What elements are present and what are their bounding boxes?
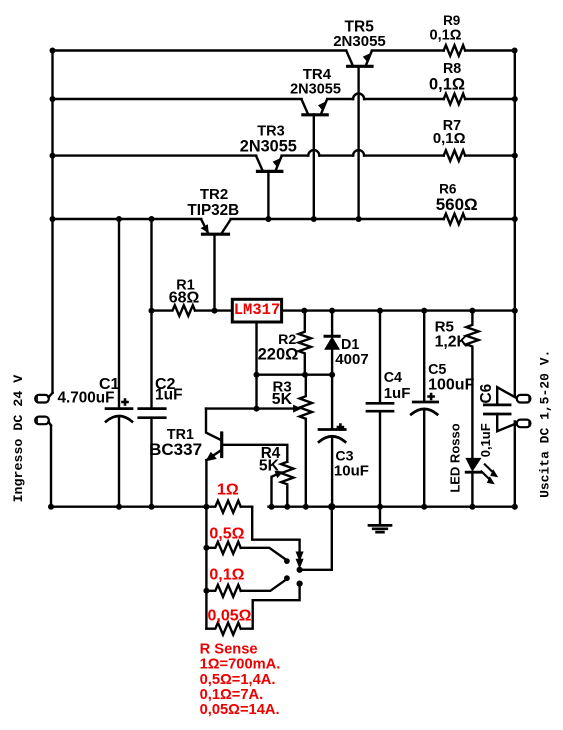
junction C5 top / output line bbox=[421, 308, 427, 314]
svg-text:4007: 4007 bbox=[335, 351, 368, 368]
transistor TR2 bbox=[201, 220, 230, 234]
wire right output bus upper bbox=[514, 51, 516, 397]
resistor R7 bbox=[444, 150, 465, 161]
resistor R6 bbox=[444, 214, 465, 225]
svg-text:0,5Ω: 0,5Ω bbox=[209, 526, 244, 543]
junction D1 top / output line bbox=[329, 308, 335, 314]
switch SW1 common pole dot bbox=[297, 567, 303, 573]
wire bottom rail left with resistor 1 ohm bbox=[51, 501, 252, 513]
R4 wiper bbox=[272, 473, 280, 507]
svg-text:1Ω=700mA.: 1Ω=700mA. bbox=[200, 657, 281, 673]
svg-text:1uF: 1uF bbox=[155, 387, 183, 404]
wire TR5 base down bbox=[357, 68, 359, 220]
capacitor C2 plates bbox=[139, 409, 165, 418]
wire hop over TR5 base bbox=[353, 150, 364, 156]
svg-text:Ingresso DC 24 V: Ingresso DC 24 V bbox=[11, 375, 26, 503]
resistor R1 bbox=[152, 305, 233, 316]
wire input minus down bbox=[50, 426, 52, 507]
LED emission arrows bbox=[481, 464, 494, 480]
wire TR4 base down bbox=[313, 115, 315, 220]
wire TR2 base down bbox=[213, 236, 215, 311]
wire hop over TR5 base bbox=[353, 94, 364, 100]
transistor TR3 bbox=[256, 156, 281, 171]
junction right bus / output line bbox=[512, 308, 518, 314]
connector input plus plug bbox=[35, 395, 49, 403]
junction TR4 base / TR2 collector rail bbox=[311, 216, 317, 222]
capacitor C5 plates bbox=[413, 401, 438, 404]
svg-text:BC337: BC337 bbox=[149, 440, 202, 459]
svg-text:1,2K: 1,2K bbox=[435, 334, 469, 351]
junction TR1 emitter / sense bus bbox=[203, 504, 209, 510]
resistor R5 bbox=[466, 311, 478, 459]
wire 1 ohm to selector bbox=[252, 507, 299, 553]
junction R4 wiper / ground rail bbox=[269, 504, 275, 510]
junction right bus / R7 bbox=[512, 153, 518, 159]
svg-text:LED Rosso: LED Rosso bbox=[447, 423, 462, 492]
junction sense bus / 0,1 ohm row bbox=[203, 588, 209, 594]
svg-text:2N3055: 2N3055 bbox=[333, 33, 386, 50]
C5 plus sign bbox=[427, 393, 435, 401]
junction C4 top / output line bbox=[377, 308, 383, 314]
junction R3 bottom / ground rail bbox=[303, 504, 309, 510]
svg-text:R9: R9 bbox=[443, 13, 460, 28]
junction left bus / TR3 rail bbox=[50, 153, 56, 159]
svg-text:5K: 5K bbox=[272, 391, 293, 408]
svg-text:0,1uF: 0,1uF bbox=[478, 423, 493, 457]
svg-text:0,1Ω=7A.: 0,1Ω=7A. bbox=[200, 687, 264, 703]
wire hop over TR4 base bbox=[308, 150, 319, 156]
wire LM317 adj pin bbox=[255, 322, 257, 375]
transistor TR2 emitter arrow bbox=[201, 224, 209, 233]
wire bottom rail right (ground net) bbox=[269, 506, 515, 508]
ground bbox=[379, 507, 381, 525]
wire sense network left bus bbox=[205, 507, 207, 629]
capacitor C5 leads bbox=[423, 311, 425, 507]
wire rail TR4 row with hop bbox=[53, 98, 515, 100]
capacitor C6 leads bbox=[497, 387, 517, 431]
transistor TR4 bbox=[302, 100, 327, 115]
wire left +24V bus bbox=[51, 51, 53, 393]
wire right output bus lower bbox=[514, 422, 516, 507]
svg-text:10uF: 10uF bbox=[334, 462, 369, 479]
junction R1 left / C2 branch bbox=[149, 308, 155, 314]
svg-text:5K: 5K bbox=[259, 457, 280, 474]
capacitor C1 plates bbox=[106, 407, 132, 410]
junction R2 bottom / adj line bbox=[302, 372, 308, 378]
junction TR3 base / TR2 collector rail bbox=[265, 216, 271, 222]
switch SW1 contact 0,1 ohm lever tip bbox=[284, 575, 290, 581]
svg-text:2N3055: 2N3055 bbox=[290, 82, 341, 98]
transistor TR5 bbox=[346, 51, 371, 66]
junction R5 top / output line bbox=[469, 308, 475, 314]
svg-text:0,05Ω: 0,05Ω bbox=[208, 608, 252, 625]
svg-text:C4: C4 bbox=[384, 370, 402, 386]
resistor R2 bbox=[299, 311, 311, 375]
svg-text:R Sense: R Sense bbox=[200, 642, 258, 658]
wire top rail TR5 row bbox=[53, 49, 515, 51]
svg-text:0,1Ω: 0,1Ω bbox=[429, 75, 465, 93]
svg-text:TR2: TR2 bbox=[200, 186, 228, 203]
junction C2 top bbox=[149, 216, 155, 222]
resistor R9 bbox=[444, 45, 465, 56]
junction C1 top bbox=[116, 216, 122, 222]
junction left bus / TR4 rail bbox=[50, 96, 56, 102]
junction C2 bottom bbox=[149, 504, 155, 510]
svg-text:C6: C6 bbox=[478, 383, 495, 403]
resistor Rs2 0.5 ohm row bbox=[206, 542, 287, 561]
svg-text:Uscita DC 1,5-20 V.: Uscita DC 1,5-20 V. bbox=[538, 350, 553, 498]
transistor TR3 emitter arrow bbox=[273, 158, 281, 168]
C3 plus sign bbox=[337, 423, 345, 431]
switch SW1 contact 0,05 ohm bbox=[297, 581, 303, 587]
transistor TR4 emitter arrow bbox=[318, 101, 326, 111]
wire R3 wiper line from TR1 collector bbox=[206, 407, 296, 409]
junction D1 anode / C3 / adj line bbox=[329, 372, 335, 378]
svg-text:1uF: 1uF bbox=[384, 385, 411, 402]
wire LM317 output line bbox=[282, 309, 515, 311]
junction C5 bottom / ground rail bbox=[421, 504, 427, 510]
capacitor C4 leads bbox=[379, 311, 381, 507]
svg-text:4.700uF: 4.700uF bbox=[58, 390, 115, 407]
junction input minus / bottom rail bbox=[48, 504, 54, 510]
junction LED cathode / ground rail bbox=[469, 504, 475, 510]
connector output plus plug bbox=[517, 395, 531, 403]
junction C3 bottom / selector common / ground rail bbox=[328, 503, 335, 510]
junction left bus / TR2 rail bbox=[50, 216, 56, 222]
junction right bus / R9 bbox=[512, 48, 518, 54]
svg-text:TIP32B: TIP32B bbox=[187, 202, 239, 219]
junction R2 top / output line bbox=[301, 308, 307, 314]
svg-text:0,1Ω: 0,1Ω bbox=[430, 27, 462, 43]
junction R4 bottom / ground rail bbox=[284, 504, 290, 510]
capacitor C6 plates bbox=[484, 405, 510, 414]
resistor Rs4 0.05 ohm row bbox=[206, 585, 299, 635]
connector input minus plug bbox=[35, 417, 49, 425]
wire TR3 base down bbox=[267, 172, 269, 219]
svg-text:68Ω: 68Ω bbox=[169, 289, 200, 306]
junction right bus / R6 bbox=[512, 216, 518, 222]
junction C4 bottom / ground symbol bbox=[377, 504, 383, 510]
switch SW1 contact 0,5 ohm lever tip bbox=[284, 558, 290, 564]
wire TR1 emitter down bbox=[205, 460, 207, 507]
LED D2 LED Rosso bbox=[466, 458, 480, 470]
junction TR2 base / LM317 input bbox=[212, 308, 218, 314]
svg-text:1Ω: 1Ω bbox=[217, 482, 239, 499]
resistor R4 (trimmer) bbox=[281, 462, 293, 507]
resistor Rs3 0.1 ohm row bbox=[206, 579, 287, 597]
junction right bus / ground rail bbox=[512, 504, 518, 510]
svg-text:0,5Ω=1,4A.: 0,5Ω=1,4A. bbox=[200, 672, 276, 688]
resistor R3 (trimmer) bbox=[300, 375, 312, 507]
svg-text:100uF: 100uF bbox=[428, 376, 474, 393]
wire selector common to ground rail bbox=[300, 507, 332, 570]
capacitor C3 leads bbox=[331, 375, 333, 507]
capacitor C4 plates bbox=[367, 403, 393, 411]
capacitor C3 plates bbox=[319, 428, 345, 431]
junction left bus / top rail bbox=[50, 48, 56, 54]
wire rail TR3 row with hops bbox=[53, 154, 515, 156]
junction C1 bottom bbox=[116, 504, 122, 510]
wire adj to wiper link bbox=[255, 375, 257, 409]
wire rail TR2 row bbox=[53, 218, 515, 220]
wire TR1 base to R4 bbox=[223, 445, 287, 462]
svg-text:TR4: TR4 bbox=[303, 66, 332, 83]
junction right bus / R8 bbox=[512, 96, 518, 102]
IC U1 LM317 bbox=[232, 299, 281, 322]
selector arrow bbox=[296, 552, 303, 560]
junction sense bus / 0,5 ohm row bbox=[203, 545, 209, 551]
svg-text:0,1Ω: 0,1Ω bbox=[209, 567, 244, 584]
transistor TR1 bbox=[206, 409, 221, 461]
svg-text:2N3055: 2N3055 bbox=[240, 138, 297, 156]
capacitor C1 leads bbox=[118, 219, 120, 507]
svg-text:LM317: LM317 bbox=[234, 301, 281, 319]
C1 plus sign bbox=[121, 398, 129, 406]
diode D1 bbox=[331, 311, 333, 375]
junction TR5 base / TR2 collector rail bbox=[356, 216, 362, 222]
resistor R8 bbox=[444, 94, 465, 105]
svg-text:0,05Ω=14A.: 0,05Ω=14A. bbox=[200, 702, 280, 718]
wire adj line bbox=[257, 374, 333, 376]
junction R3 wiper / TR1 collector bbox=[254, 406, 260, 412]
transistor TR5 emitter arrow bbox=[363, 53, 371, 63]
svg-text:0,1Ω: 0,1Ω bbox=[433, 131, 466, 147]
svg-text:220Ω: 220Ω bbox=[258, 345, 299, 363]
junction adj line left bbox=[254, 372, 260, 378]
svg-text:560Ω: 560Ω bbox=[436, 195, 478, 214]
R3 wiper arrowhead bbox=[294, 405, 301, 411]
connector output minus plug bbox=[517, 420, 531, 428]
capacitor C2 leads bbox=[150, 219, 152, 507]
